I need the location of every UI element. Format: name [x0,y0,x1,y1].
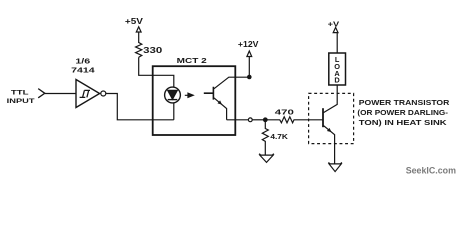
svg-text:SeekIC.com: SeekIC.com [406,166,456,176]
inverter U1 triangle [76,80,100,108]
ground G2 [329,162,342,171]
+5V supply arrow [136,27,141,32]
open terminal circle [248,118,252,122]
svg-text:330: 330 [143,46,163,55]
resistor R1 330 zigzag [136,43,142,58]
LED D1 circle [165,87,181,103]
LOAD box [329,53,346,85]
LED D1 triangle and cathode bar [168,90,178,99]
junction dot node A [263,117,268,122]
resistor R2 470 [265,117,323,123]
annotation power transistor text [357,98,449,127]
LED cathode stub [173,103,175,120]
optocoupler box MCT2 [153,66,236,135]
svg-text:+V: +V [328,19,340,28]
wire inverter output to LED cathode [106,94,174,120]
+12V supply arrow [247,51,252,57]
wire terminal to node [252,119,265,121]
wire LOAD to +V arrow [336,33,338,53]
power transistor Q2 bar [322,108,324,127]
svg-text:MCT 2: MCT 2 [177,56,207,65]
ground G1 [259,154,273,163]
power transistor emitter arrowhead [327,128,332,132]
label 1/6 7414 [71,57,96,75]
phototransistor Q1 base lead and bar [204,87,214,100]
svg-text:1/6: 1/6 [75,57,90,66]
wire +5V to R1 [138,32,140,43]
svg-text:TON) IN HEAT SINK: TON) IN HEAT SINK [359,118,447,127]
svg-text:7414: 7414 [71,65,96,74]
power transistor emitter [324,126,335,164]
TTL INPUT label [7,89,35,105]
svg-text:(OR POWER DARLING-: (OR POWER DARLING- [357,108,448,117]
wire input to inverter [45,93,76,95]
input connector chevron [38,89,45,98]
svg-text:TTL: TTL [11,89,29,96]
svg-text:+12V: +12V [238,40,259,49]
LOAD letters [334,55,340,84]
phototransistor emitter arrowhead [218,100,223,104]
svg-text:+5V: +5V [125,17,144,26]
dashed box power stage [309,93,354,143]
svg-text:4.7K: 4.7K [270,132,288,141]
+V supply arrow [333,27,338,32]
svg-text:470: 470 [275,108,294,117]
inverter output bubble [101,91,106,96]
wire +12V to collector node [248,57,250,78]
phototransistor emitter [214,98,227,120]
svg-text:D: D [334,76,340,85]
schmitt hysteresis symbol [80,90,90,97]
svg-text:POWER TRANSISTOR: POWER TRANSISTOR [359,98,450,107]
resistor R3 4.7K [262,120,268,155]
power transistor collector [324,85,338,112]
phototransistor collector [214,77,250,89]
light arrow [185,93,193,97]
wire R1 to LED anode [139,57,174,87]
wire emitter out of box [227,119,249,121]
svg-text:INPUT: INPUT [7,98,35,105]
junction dot collector/+12V [247,75,252,80]
